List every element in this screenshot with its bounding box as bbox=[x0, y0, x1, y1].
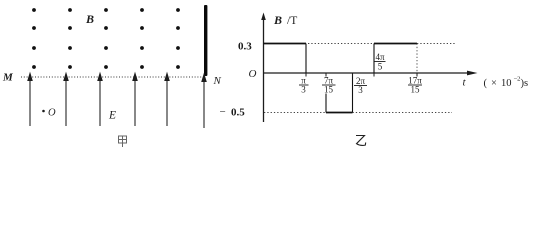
tick label 4pi/5 (above axis) bbox=[375, 52, 385, 72]
x axis t bbox=[264, 72, 471, 74]
svg-text:3: 3 bbox=[301, 85, 306, 95]
dotted vertical at 17pi/15 bbox=[416, 44, 418, 74]
svg-text:O: O bbox=[48, 108, 56, 119]
thick bar (rod/screen) right side bbox=[204, 5, 207, 76]
caption yi (drawn glyph) bbox=[356, 136, 366, 146]
svg-text:(: ( bbox=[484, 78, 488, 89]
y axis B bbox=[263, 17, 265, 122]
svg-text:t: t bbox=[463, 77, 467, 89]
field dots grid B (out of page) bbox=[32, 8, 180, 69]
svg-text:0.5: 0.5 bbox=[231, 107, 245, 119]
svg-text:B: B bbox=[85, 12, 94, 26]
E-field arrows (6 up arrows) bbox=[28, 74, 206, 129]
svg-text:15: 15 bbox=[324, 85, 334, 95]
svg-text:E: E bbox=[108, 110, 116, 122]
svg-text:3: 3 bbox=[358, 85, 363, 95]
caption jia (drawn glyph) bbox=[119, 136, 127, 147]
point O with dot bbox=[42, 110, 45, 113]
waveform solid: -0.5 pulse 7pi/15..2pi/3 bbox=[325, 94, 327, 113]
svg-text:4π: 4π bbox=[375, 52, 385, 62]
svg-text:−2: −2 bbox=[514, 76, 521, 83]
waveform solid: +0.3 pulse 0..pi/3 bbox=[264, 43, 307, 45]
svg-text:−: − bbox=[220, 106, 226, 118]
tick label 17pi/15 bbox=[408, 76, 422, 95]
svg-text:)s: )s bbox=[521, 78, 529, 89]
tick label 2pi/3 bbox=[356, 76, 366, 95]
svg-text:15: 15 bbox=[411, 85, 421, 95]
waveform solid: +0.3 pulse 4pi/5..17pi/15 bbox=[373, 44, 375, 74]
axis ticks bbox=[306, 73, 417, 77]
dotted guide 0.3 level bbox=[308, 43, 374, 45]
svg-text:B: B bbox=[273, 13, 282, 27]
svg-text:M: M bbox=[2, 72, 14, 84]
tick label pi/3 bbox=[301, 76, 306, 95]
dotted boundary line M..N bbox=[21, 76, 202, 78]
svg-text:×: × bbox=[491, 78, 497, 89]
dotted guide -0.5 level bbox=[264, 112, 326, 114]
svg-text:O: O bbox=[249, 68, 257, 80]
svg-text:0.3: 0.3 bbox=[238, 41, 252, 53]
svg-text:/T: /T bbox=[287, 15, 297, 27]
tick label 7pi/15 bbox=[324, 76, 334, 95]
svg-text:5: 5 bbox=[378, 62, 383, 72]
svg-text:10: 10 bbox=[501, 78, 512, 89]
svg-text:N: N bbox=[213, 75, 222, 87]
